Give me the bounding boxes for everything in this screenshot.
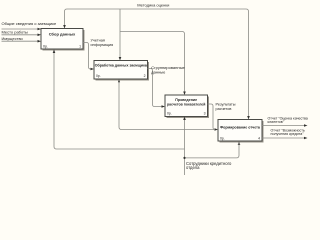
svg-text:данные: данные <box>151 70 166 75</box>
wire box1 output Учетная информация <box>83 43 93 70</box>
svg-text:Методика оценки: Методика оценки <box>137 2 169 7</box>
arrowhead into box3 left <box>162 105 166 108</box>
svg-text:2: 2 <box>144 74 146 78</box>
svg-text:0р.: 0р. <box>96 74 101 78</box>
svg-text:0р.: 0р. <box>43 45 48 49</box>
wire mechanism right segment <box>185 143 240 158</box>
arrowhead input 3 <box>38 40 42 43</box>
svg-text:4: 4 <box>258 137 260 141</box>
wire box2 output Сгруппированные данные <box>148 69 165 107</box>
wire output report 1 <box>262 125 305 127</box>
wire output report 2 <box>262 137 305 139</box>
arrowhead up into box1 bottom <box>53 50 56 54</box>
svg-text:Проведение: Проведение <box>175 98 197 102</box>
svg-text:Общие сведения о заемщике: Общие сведения о заемщике <box>2 21 57 26</box>
wire box2 bottom to box4 left <box>119 80 216 130</box>
svg-text:Имущество: Имущество <box>2 36 24 41</box>
wire control branch into box2 <box>119 9 121 60</box>
wire control branch B to box3 <box>120 32 185 95</box>
svg-text:расчетов показателей: расчетов показателей <box>167 103 205 107</box>
arrowhead into box2 left <box>91 68 95 71</box>
svg-text:1: 1 <box>79 45 81 49</box>
arrowhead up at box2 bottom <box>118 80 120 83</box>
svg-text:Место работы: Место работы <box>2 29 28 34</box>
wire mechanism line <box>54 50 185 149</box>
svg-text:информация: информация <box>91 43 114 47</box>
arrowhead up into box3 bottom <box>183 117 186 121</box>
box A3 Проведение расчетов показателей <box>165 95 208 117</box>
box A3 shadow <box>167 97 210 119</box>
svg-text:расчетов: расчетов <box>216 107 232 111</box>
svg-text:отдела: отдела <box>186 165 200 170</box>
arrowhead input 1 <box>38 28 42 31</box>
svg-text:Обработка данных заемщика: Обработка данных заемщика <box>95 64 148 68</box>
wire input 3 <box>2 40 39 42</box>
svg-text:Сбор данных: Сбор данных <box>49 32 76 37</box>
svg-text:0р.: 0р. <box>220 137 225 141</box>
wire input 1 <box>2 28 39 30</box>
box A4 shadow <box>220 121 264 143</box>
box A4 Формирование отчета <box>218 120 262 142</box>
box A2 shadow <box>96 62 150 81</box>
svg-text:клиентов": клиентов" <box>268 120 285 124</box>
arrowhead into box3 top <box>183 92 186 96</box>
wire input 2 <box>2 34 39 36</box>
box A2 Обработка данных заемщика <box>94 61 148 80</box>
svg-text:0р.: 0р. <box>167 112 172 116</box>
arrowhead output 2 <box>304 137 308 140</box>
arrowhead into box4 left <box>215 128 219 131</box>
arrowhead output 1 <box>304 124 308 127</box>
wire control line A (Методика оценки) <box>65 9 249 118</box>
arrowhead into box4 top <box>247 116 250 120</box>
wire mechanism vertical Сотрудники кредитного отдела <box>184 118 186 176</box>
junction dot <box>183 157 185 159</box>
svg-text:3: 3 <box>204 112 206 116</box>
box A1 shadow <box>43 30 85 51</box>
box A1 Сбор данных <box>41 29 83 50</box>
svg-text:получения кредита": получения кредита" <box>271 132 305 136</box>
arrowhead into box1 top <box>63 25 66 29</box>
arrowhead up into box4 bottom <box>238 142 241 146</box>
arrowhead into box2 top <box>119 57 122 61</box>
svg-text:Формирование отчета: Формирование отчета <box>220 125 261 129</box>
arrowhead input 2 <box>38 34 42 37</box>
wire box3 output Результаты расчетов <box>208 104 216 130</box>
